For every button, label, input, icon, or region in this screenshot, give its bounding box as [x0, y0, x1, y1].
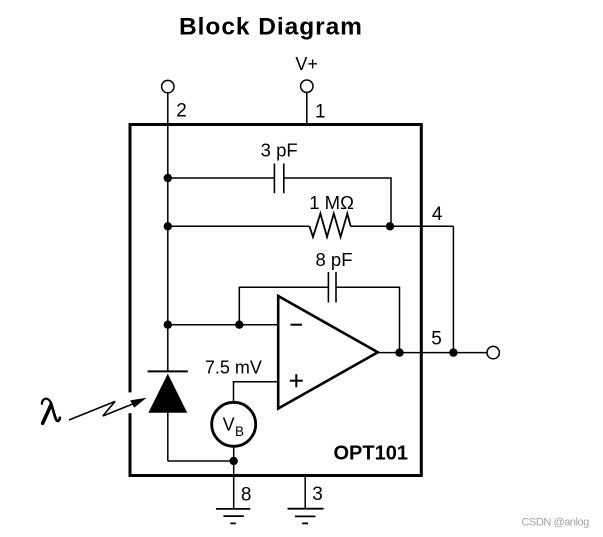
pin 5 terminal circle — [487, 346, 499, 358]
op-amp U1 minus sign — [291, 324, 303, 326]
wire pin4 vertical down to output — [452, 226, 454, 352]
wire inverting input — [168, 324, 278, 326]
photodiode D1 cathode bar — [148, 370, 188, 372]
wire op-amp output — [378, 352, 487, 354]
svg-text:7.5 mV: 7.5 mV — [205, 358, 262, 378]
svg-text:8: 8 — [241, 485, 252, 506]
op-amp U1 plus sign — [290, 374, 303, 387]
ground symbol pin 8 — [216, 509, 250, 524]
resistor R1 1Mohm zigzag — [310, 214, 351, 238]
wire common node to pin 8 — [233, 461, 235, 509]
svg-text:1: 1 — [315, 101, 326, 122]
svg-text:5: 5 — [431, 328, 442, 349]
wire C1 right plate to corner — [284, 178, 391, 226]
junction dot rail/inverting input — [164, 321, 172, 329]
gap in box edge for light arrow — [127, 392, 134, 413]
light arrow head — [130, 398, 146, 408]
junction dot rail/C1 — [164, 174, 172, 182]
wire C2 right plate to output node — [336, 287, 400, 352]
capacitor C1 3pF plates — [274, 164, 283, 194]
wire pin 3 — [304, 476, 306, 509]
junction dot output/C2 — [395, 348, 403, 356]
junction dot rail/R1 — [164, 222, 172, 230]
wire rail to R1 — [168, 225, 310, 227]
svg-text:1 MΩ: 1 MΩ — [309, 192, 354, 213]
svg-text:3: 3 — [312, 484, 323, 505]
svg-text:V+: V+ — [295, 54, 318, 74]
svg-text:Block Diagram: Block Diagram — [179, 14, 363, 41]
pin 2 terminal circle — [162, 80, 174, 92]
op-amp U1 triangle — [278, 296, 378, 409]
wire R1 to pin4 corner — [351, 225, 454, 227]
wire rail to C1 left plate — [168, 177, 275, 179]
svg-text:4: 4 — [432, 204, 443, 225]
light arrow lightning — [69, 401, 137, 420]
svg-text:3 pF: 3 pF — [261, 139, 298, 160]
voltage source VB circle — [212, 402, 256, 446]
capacitor C2 8pF plates — [328, 272, 336, 303]
wire photodiode anode down — [167, 413, 169, 461]
junction dot common node — [230, 457, 238, 465]
IC boundary box OPT101 — [130, 125, 421, 476]
photodiode D1 triangle — [148, 374, 187, 413]
svg-text:CSDN @anlog: CSDN @anlog — [522, 517, 590, 529]
wire inverting node up and to C2 left plate — [239, 287, 328, 325]
wire anode to common node — [168, 460, 234, 462]
wire pin1 to box top — [306, 92, 308, 126]
lambda light symbol — [42, 399, 60, 424]
wire VB bottom to common node — [233, 446, 235, 461]
svg-text:8 pF: 8 pF — [315, 249, 352, 270]
svg-text:2: 2 — [176, 100, 187, 121]
svg-text:B: B — [235, 424, 244, 439]
pin 1 terminal circle — [301, 80, 313, 92]
wire pin2 vertical rail — [167, 93, 169, 372]
junction dot R1/C1 feedback node — [386, 222, 394, 230]
junction dot inverting/C2 — [235, 321, 243, 329]
junction dot output/pin4 branch — [449, 348, 457, 356]
wire VB to noninverting input — [234, 382, 279, 403]
ground symbol pin 3 — [288, 509, 324, 524]
svg-text:V: V — [223, 415, 235, 435]
svg-text:OPT101: OPT101 — [334, 443, 408, 465]
